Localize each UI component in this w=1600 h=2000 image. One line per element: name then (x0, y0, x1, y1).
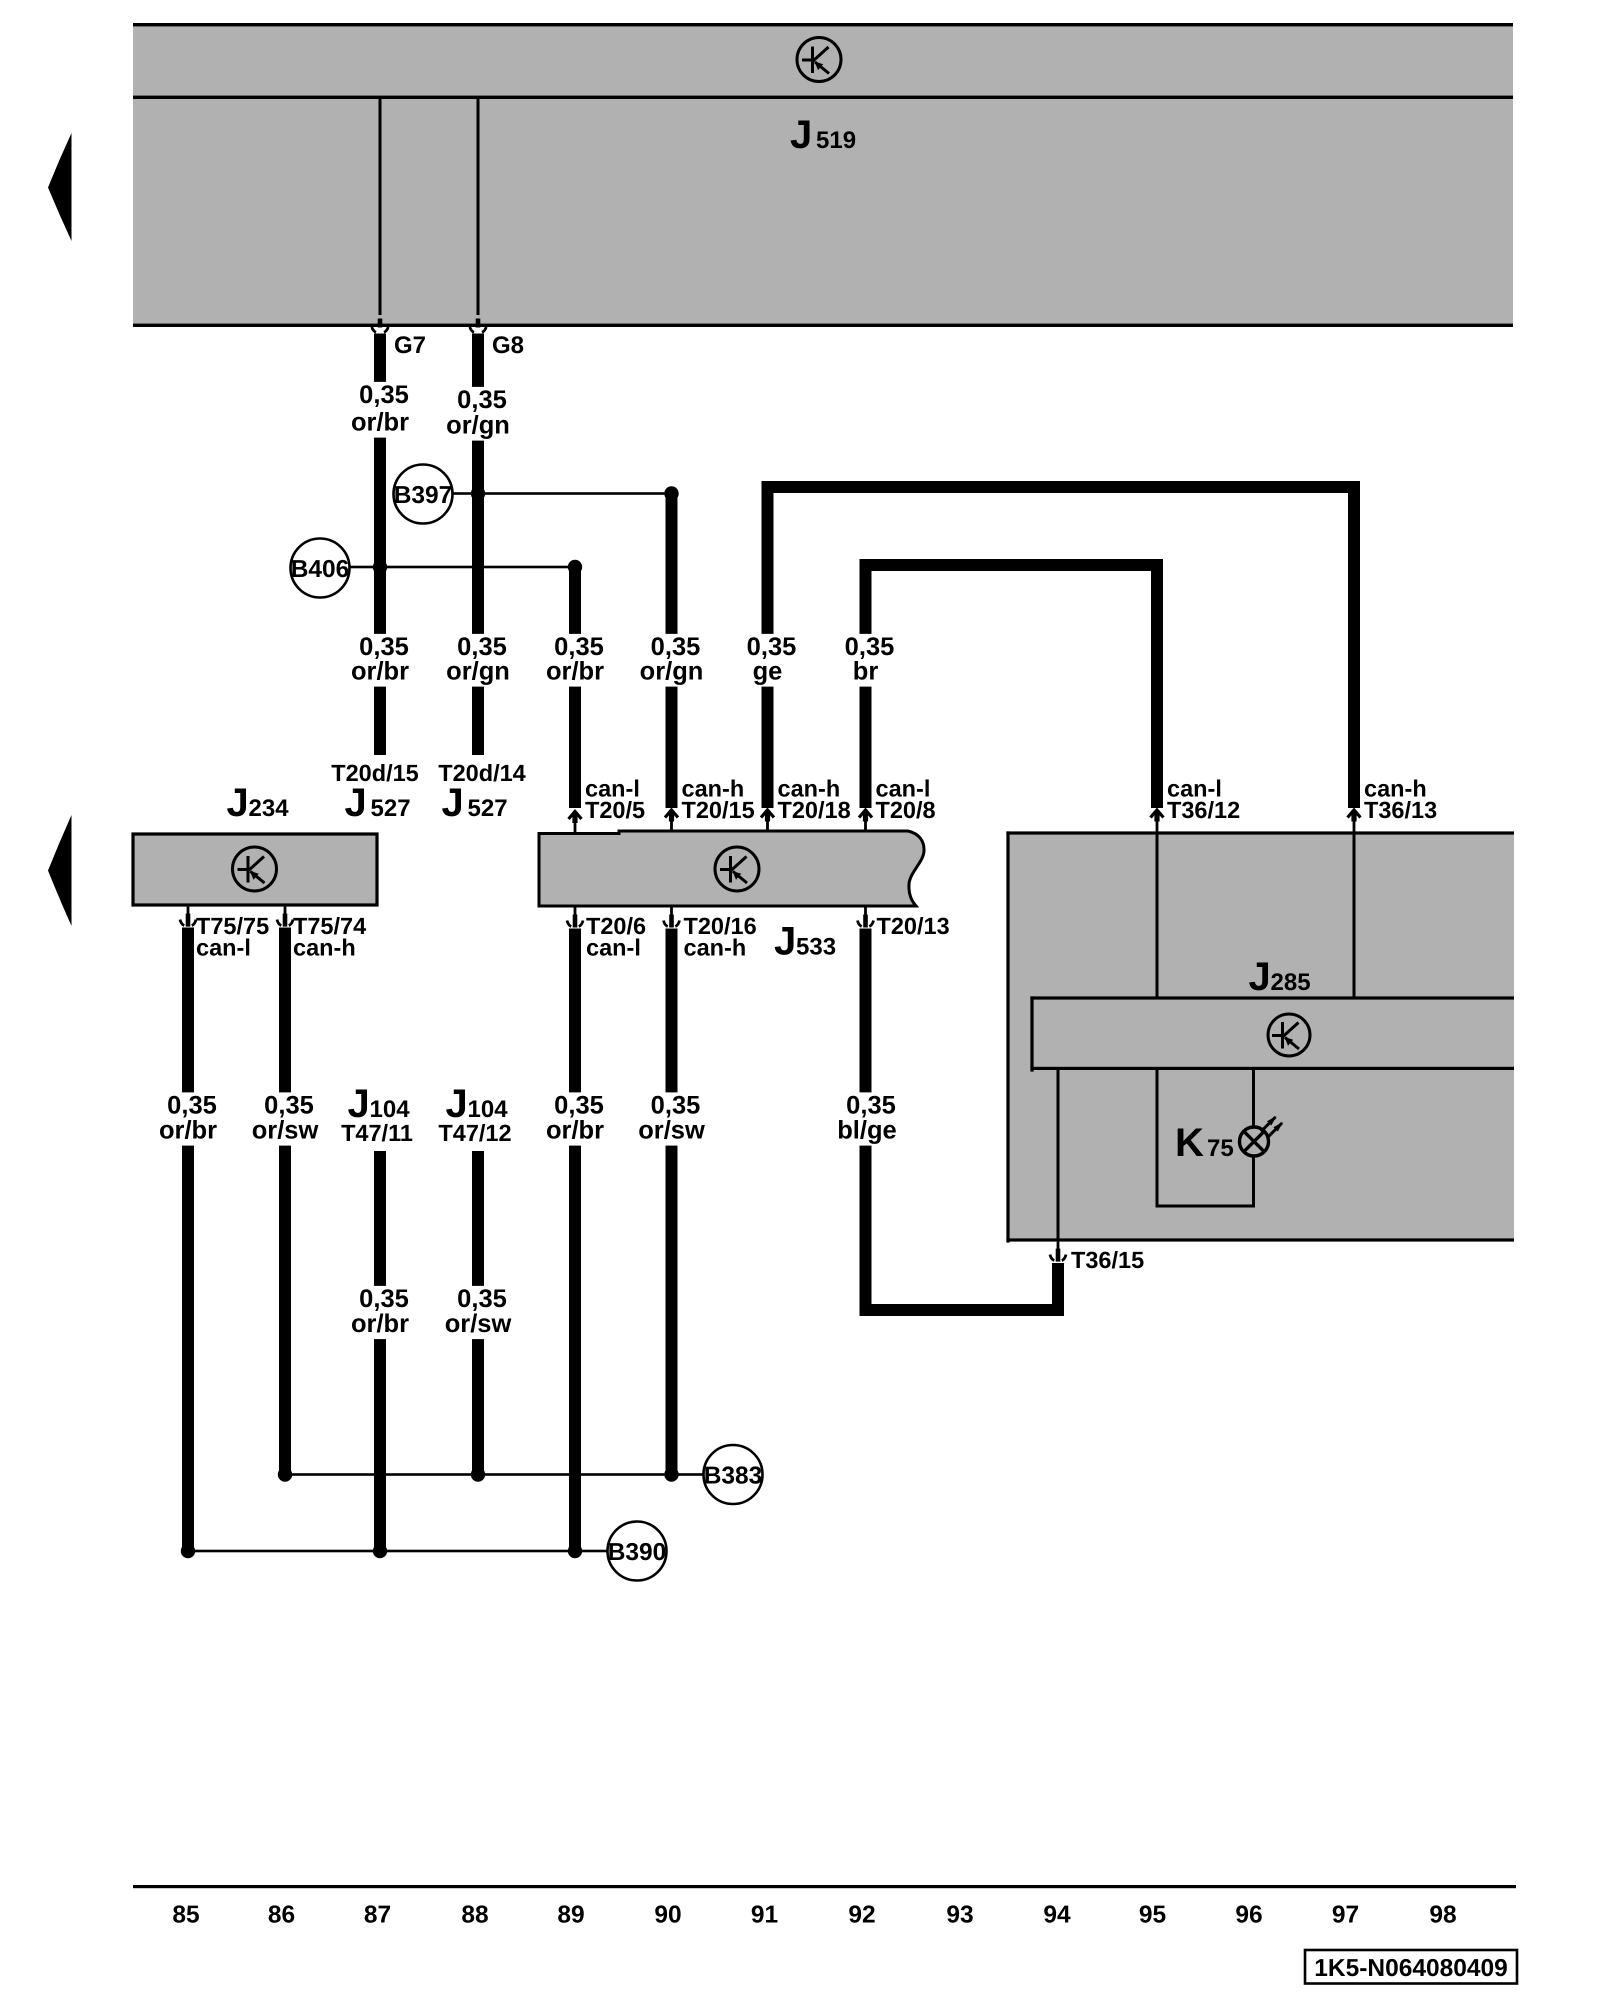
track number 85 (172, 1902, 199, 1929)
wire inside J285 T36/13 to bar (1353, 833, 1356, 998)
svg-text:85: 85 (172, 1902, 199, 1929)
terminal label can-h T20/18 (778, 776, 851, 824)
node or/br T20/6 at B390 (568, 1544, 582, 1558)
node or/sw T20/16 at B383 (664, 1467, 678, 1481)
terminal can-l T20/5 entry (569, 812, 582, 834)
value label 0,35 or/br colE low (542, 1092, 608, 1146)
svg-text:0,35: 0,35 (846, 1092, 896, 1120)
terminal label T75/74 can-h (293, 913, 366, 961)
svg-text:0,35: 0,35 (264, 1092, 314, 1120)
svg-text:0,35: 0,35 (457, 386, 507, 414)
terminal T20/13 exit (858, 908, 874, 928)
svg-text:527: 527 (371, 795, 411, 822)
svg-text:B390: B390 (608, 1539, 667, 1566)
terminal T75/75 exit (180, 907, 196, 927)
wire 0,35 or/br G7 to T20d/15 (374, 334, 386, 756)
label J527 left (345, 781, 411, 825)
terminal label T20d/14 (438, 760, 526, 786)
terminal label T20/16 can-h (684, 913, 757, 961)
svg-text:1K5-N064080409: 1K5-N064080409 (1314, 1955, 1507, 1982)
value label 0,35 bl/ge (833, 1092, 901, 1146)
terminal G8 exit from J519 (470, 319, 486, 333)
value label 0,35 or/br col5 (542, 633, 608, 687)
svg-text:T20/13: T20/13 (877, 913, 950, 939)
wire can-l br elbow to T36/12 (860, 559, 1164, 808)
wire G8 inside J519 (477, 99, 480, 315)
value label 0,35 br (837, 633, 895, 687)
node or/br T75/75 at B390 (181, 1544, 195, 1558)
terminal T36/15 exit (1050, 1242, 1066, 1262)
track number 95 (1139, 1902, 1166, 1929)
value label 0,35 or/sw colF low (633, 1092, 709, 1146)
track number 87 (364, 1902, 391, 1929)
control module J533 box (539, 831, 924, 906)
svg-text:or/br: or/br (351, 1310, 409, 1338)
terminal label can-h T36/13 (1364, 776, 1437, 824)
svg-text:89: 89 (557, 1902, 584, 1929)
wire inside J285 T36/12 to bar (1156, 833, 1159, 998)
terminal can-h T20/18 entry (761, 810, 774, 832)
svg-text:or/br: or/br (546, 658, 604, 686)
svg-text:T20/15: T20/15 (682, 797, 755, 823)
svg-text:J: J (227, 781, 249, 825)
value label 0,35 or/gn col G8 (442, 386, 514, 441)
wire 0,35 or/br T75/75 to B390 (182, 928, 194, 1552)
bus symbol K in J533 (715, 847, 759, 891)
label J533 (774, 920, 836, 964)
value label 0,35 or/gn col4 (442, 633, 514, 687)
svg-text:T36/12: T36/12 (1167, 797, 1240, 823)
svg-text:or/gn: or/gn (446, 658, 510, 686)
svg-text:533: 533 (796, 934, 836, 961)
svg-text:ge: ge (753, 658, 783, 686)
svg-text:0,35: 0,35 (651, 1092, 701, 1120)
value label 0,35 or/br col3 (347, 633, 413, 687)
svg-text:or/br: or/br (546, 1117, 604, 1145)
svg-text:G7: G7 (394, 332, 426, 359)
svg-text:or/br: or/br (351, 409, 409, 437)
svg-text:can-l: can-l (586, 935, 641, 961)
track number 96 (1235, 1902, 1262, 1929)
wire 0,35 or/gn B397 to T20/15 (666, 494, 678, 809)
svg-text:0,35: 0,35 (554, 1092, 604, 1120)
track number 88 (461, 1902, 488, 1929)
node B397 to can-h wire (664, 486, 678, 500)
wire to junction B390 (188, 1550, 608, 1553)
indicator lamp K75 (1240, 1116, 1284, 1156)
wire to junction B383 (285, 1473, 704, 1476)
wire 0,35 bl/ge T20/13 elbow to T36/15 (860, 929, 1065, 1317)
svg-text:88: 88 (461, 1902, 488, 1929)
track number 91 (751, 1902, 778, 1929)
wire can-h ge elbow to T36/13 (762, 481, 1361, 808)
diagram code box (1305, 1950, 1517, 1984)
wire K75 bottom (1156, 1205, 1256, 1208)
wire inside J285 bar to T36/15 (1057, 1070, 1060, 1241)
svg-text:can-h: can-h (293, 935, 356, 961)
wire G7 inside J519 (379, 99, 382, 315)
svg-text:75: 75 (1207, 1135, 1234, 1162)
terminal can-h T20/15 entry (665, 810, 678, 832)
track number 90 (654, 1902, 681, 1929)
svg-text:or/gn: or/gn (640, 658, 704, 686)
terminal can-h T36/13 entry (1348, 810, 1361, 832)
bus symbol K in J519 (797, 38, 841, 82)
svg-text:86: 86 (268, 1902, 295, 1929)
svg-text:519: 519 (816, 127, 856, 154)
value label 0,35 or/sw colB (247, 1092, 323, 1146)
svg-text:B383: B383 (704, 1463, 763, 1490)
svg-text:0,35: 0,35 (167, 1092, 217, 1120)
svg-text:0,35: 0,35 (359, 381, 409, 409)
track number 97 (1332, 1902, 1359, 1929)
terminal G7 exit from J519 (372, 319, 388, 333)
wire 0,35 or/sw T20/16 to B383 (666, 929, 678, 1475)
svg-text:90: 90 (654, 1902, 681, 1929)
svg-text:285: 285 (1271, 969, 1311, 996)
svg-text:104: 104 (370, 1096, 411, 1123)
svg-text:93: 93 (946, 1902, 973, 1929)
bus symbol K in J285 (1268, 1014, 1310, 1056)
track number 86 (268, 1902, 295, 1929)
svg-text:0,35: 0,35 (457, 1285, 507, 1313)
svg-text:or/gn: or/gn (446, 412, 510, 440)
value label 0,35 or/gn col6 (636, 633, 708, 687)
value label 0,35 or/br colC low (347, 1285, 413, 1339)
label J519 (790, 113, 856, 157)
wire 0,35 or/br T47/11 to B390 (374, 1151, 386, 1551)
svg-text:K: K (1175, 1121, 1204, 1165)
pin label G7 (394, 332, 426, 359)
svg-text:92: 92 (848, 1902, 875, 1929)
junction connector B390 (608, 1522, 667, 1581)
wire K75 right leg (1252, 1070, 1255, 1207)
page arrow top (48, 133, 72, 241)
svg-text:J: J (442, 781, 464, 825)
terminal label can-l T20/5 (585, 776, 645, 824)
svg-text:T36/13: T36/13 (1364, 797, 1437, 823)
track number 98 (1429, 1902, 1456, 1929)
instrument insert bar in J285 (1030, 996, 1514, 1071)
wire 0,35 or/gn G8 to T20d/14 (472, 334, 484, 756)
svg-text:T36/15: T36/15 (1071, 1247, 1144, 1273)
control module J234 box (133, 834, 377, 905)
wire 0,35 or/sw T47/12 to B383 (472, 1151, 484, 1475)
svg-text:98: 98 (1429, 1902, 1456, 1929)
wire 0,35 or/br B406 to T20/5 (569, 567, 581, 808)
terminal label can-h T20/15 (682, 776, 755, 824)
wire 0,35 or/br T20/6 to B390 (569, 929, 581, 1552)
terminal T75/74 exit (277, 907, 293, 927)
junction connector B406 (291, 539, 350, 598)
svg-text:97: 97 (1332, 1902, 1359, 1929)
svg-text:0,35: 0,35 (359, 1285, 409, 1313)
node B406 to can-l wire (568, 560, 582, 574)
node or/sw T47/12 at B383 (471, 1467, 485, 1481)
svg-text:94: 94 (1043, 1902, 1071, 1929)
label J527 right (442, 781, 508, 825)
terminal label T20/6 can-l (586, 913, 646, 961)
svg-text:T20/5: T20/5 (585, 797, 645, 823)
junction connector B397 (394, 465, 453, 524)
node on wire or/gn at B397 (471, 486, 485, 500)
label K75 (1175, 1121, 1234, 1165)
track number 94 (1043, 1902, 1071, 1929)
wire K75 left leg (1156, 1070, 1159, 1207)
svg-text:or/sw: or/sw (252, 1117, 319, 1145)
value label 0,35 ge (739, 633, 797, 687)
svg-text:or/sw: or/sw (445, 1310, 512, 1338)
junction connector B383 (704, 1445, 763, 1504)
wire from B397 junction (453, 492, 672, 495)
svg-text:or/br: or/br (351, 658, 409, 686)
bus symbol K in J234 (233, 847, 277, 891)
svg-text:J: J (774, 920, 796, 964)
svg-text:91: 91 (751, 1902, 778, 1929)
terminal label T20d/15 (331, 760, 419, 786)
label J104 T47/12 (438, 1082, 511, 1146)
value label 0,35 or/sw colD low (440, 1285, 516, 1339)
terminal label can-l T36/12 (1167, 776, 1240, 824)
svg-text:J: J (345, 781, 367, 825)
svg-text:can-h: can-h (684, 935, 747, 961)
pin label G8 (492, 332, 524, 359)
track number 93 (946, 1902, 973, 1929)
node or/br T47/11 at B390 (373, 1544, 387, 1558)
svg-text:96: 96 (1235, 1902, 1262, 1929)
svg-text:87: 87 (364, 1902, 391, 1929)
node on wire or/br at B406 (373, 560, 387, 574)
svg-text:or/br: or/br (159, 1117, 217, 1145)
svg-text:G8: G8 (492, 332, 524, 359)
value label 0,35 or/br col G7 (347, 381, 413, 438)
track ruler line (133, 1885, 1516, 1888)
svg-text:can-l: can-l (196, 935, 251, 961)
terminal label T36/15 (1071, 1247, 1144, 1273)
control module J285 outer box (1006, 831, 1514, 1242)
svg-text:br: br (853, 658, 879, 686)
terminal T20/16 exit (664, 908, 680, 928)
svg-text:T47/12: T47/12 (438, 1120, 511, 1146)
svg-text:B397: B397 (394, 482, 453, 509)
page arrow middle (48, 815, 72, 926)
label J285 (1249, 955, 1311, 999)
svg-text:B406: B406 (291, 556, 350, 583)
svg-text:104: 104 (468, 1096, 509, 1123)
svg-text:T47/11: T47/11 (341, 1120, 413, 1146)
terminal label T75/75 can-l (196, 913, 269, 961)
wire 0,35 or/sw T75/74 to B383 (279, 928, 291, 1475)
label J104 T47/11 (341, 1082, 413, 1146)
label J234 (227, 781, 290, 825)
control module J519 box (133, 23, 1513, 327)
svg-text:J: J (1249, 955, 1271, 999)
terminal can-l T20/8 entry (859, 810, 872, 832)
terminal can-l T36/12 entry (1151, 810, 1164, 832)
svg-text:234: 234 (249, 795, 290, 822)
track number 92 (848, 1902, 875, 1929)
value label 0,35 or/br colA (155, 1092, 221, 1146)
terminal label T20/13 (877, 913, 950, 939)
svg-text:J: J (790, 113, 812, 157)
terminal T20/6 exit (567, 908, 583, 928)
svg-text:or/sw: or/sw (638, 1117, 705, 1145)
terminal label can-l T20/8 (876, 776, 936, 824)
svg-text:T20/18: T20/18 (778, 797, 851, 823)
track number 89 (557, 1902, 584, 1929)
svg-text:95: 95 (1139, 1902, 1166, 1929)
wire from B406 junction (350, 566, 576, 569)
svg-text:bl/ge: bl/ge (837, 1117, 897, 1145)
svg-text:527: 527 (468, 795, 508, 822)
svg-text:T20/8: T20/8 (876, 797, 936, 823)
node or/sw T75/74 at B383 (278, 1467, 292, 1481)
